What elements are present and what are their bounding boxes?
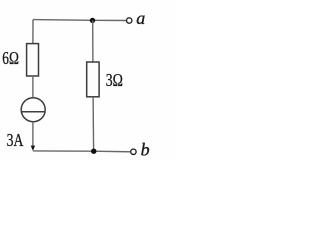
resistor 6ohm bbox=[27, 44, 39, 76]
resistor 3ohm bbox=[87, 62, 99, 97]
wire between resistor R1 and current source bbox=[32, 76, 34, 98]
wire resistor R2 to bottom junction bbox=[92, 97, 95, 151]
wire left vertical top (corner to resistor R1) bbox=[32, 20, 34, 44]
junction node bottom bbox=[91, 149, 96, 154]
svg-text:a: a bbox=[136, 8, 145, 28]
terminal a bbox=[127, 18, 132, 23]
terminal b bbox=[131, 149, 136, 154]
svg-text:3A: 3A bbox=[7, 130, 24, 150]
wire bottom from arrow corner to terminal b bbox=[33, 150, 131, 153]
wire current source to bottom with arrowhead bbox=[32, 122, 34, 146]
svg-text:b: b bbox=[141, 139, 150, 159]
wire top from left corner to terminal a bbox=[33, 19, 126, 22]
svg-text:3Ω: 3Ω bbox=[106, 70, 123, 90]
arrowhead down bbox=[31, 146, 35, 151]
svg-text:6Ω: 6Ω bbox=[2, 48, 19, 68]
current source I1 circle bbox=[21, 98, 45, 122]
current source bar bbox=[21, 111, 45, 113]
junction node top bbox=[90, 18, 95, 23]
wire right vertical top (junction to resistor R2) bbox=[92, 20, 94, 62]
